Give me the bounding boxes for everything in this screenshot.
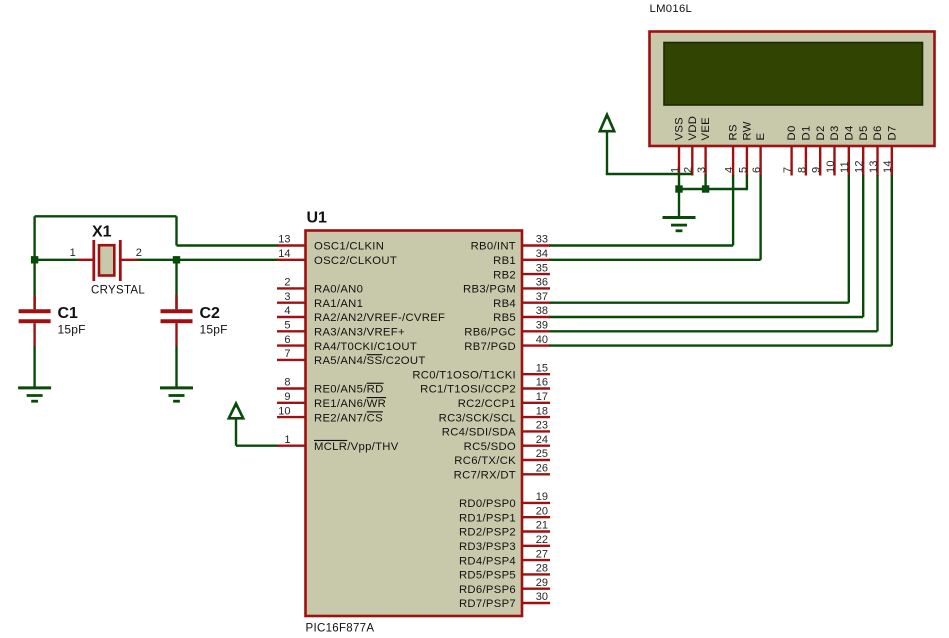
U1 pin 22 (RD3/PSP3) stub, number and label: [459, 534, 550, 553]
svg-text:VDD: VDD: [687, 116, 699, 141]
svg-text:RS: RS: [728, 124, 740, 140]
svg-text:2: 2: [683, 167, 695, 173]
U1 pin 29 (RD6/PSP6) stub, number and label: [459, 577, 550, 596]
power arrow VDD: [600, 113, 614, 132]
LCD pin 10 (D3) stub, name and number: [825, 125, 841, 175]
capacitor C1 (15pF) with leads: [19, 260, 51, 388]
LCD pin 8 (D1) stub, name and number: [796, 125, 812, 175]
junction dot node A (OSC1/C1/crystal): [31, 256, 38, 263]
U1 pin 37 (RB4) stub, number and label: [493, 291, 550, 310]
svg-text:13: 13: [868, 160, 880, 173]
svg-text:15pF: 15pF: [200, 323, 228, 337]
wire MCLR power stem: [235, 418, 237, 445]
svg-text:5: 5: [284, 320, 290, 332]
svg-text:35: 35: [536, 262, 548, 274]
wire LCD pin1 VSS down to ground node: [678, 174, 680, 189]
U1 pin 7 (RA5/AN4/SS/C2OUT) stub, number and label: [277, 348, 426, 367]
svg-text:RD2/PSP2: RD2/PSP2: [459, 527, 516, 539]
wire RB5 to LCD D5 (net D5): [549, 175, 863, 317]
wire VDD rail to LCD pin 2: [606, 173, 693, 175]
svg-text:37: 37: [536, 291, 548, 303]
svg-text:RB4: RB4: [493, 298, 516, 310]
svg-text:40: 40: [536, 334, 548, 346]
svg-text:D3: D3: [829, 125, 841, 140]
wire LCD pin5 RW down to ground rail: [746, 175, 748, 190]
wire RB4 to LCD D4 (net D4): [549, 175, 849, 303]
svg-text:E: E: [755, 133, 767, 141]
junction dot at LCD pin3 ground node: [702, 185, 709, 192]
LCD pin 2 (VDD) stub, name and number: [683, 116, 699, 176]
svg-text:U1: U1: [307, 210, 328, 227]
U1 pin 35 (RB2) stub, number and label: [493, 262, 550, 281]
svg-text:X1: X1: [92, 224, 112, 241]
U1 pin 34 (RB1) stub, number and label: [493, 248, 550, 267]
U1 pin 17 (RC2/CCP1) stub, number and label: [458, 391, 550, 410]
svg-text:RD6/PSP6: RD6/PSP6: [459, 584, 516, 596]
LCD pin 5 (RW) stub, name and number: [737, 121, 753, 175]
LCD pin 14 (D7) stub, name and number: [882, 125, 898, 175]
svg-text:RC0/T1OSO/T1CKI: RC0/T1OSO/T1CKI: [412, 369, 516, 381]
svg-text:RD3/PSP3: RD3/PSP3: [459, 541, 516, 553]
wire OSC1 left drop to crystal node A: [33, 216, 35, 259]
svg-text:10: 10: [278, 405, 290, 417]
wire MCLR power to U1 pin1: [236, 445, 278, 447]
svg-text:LM016L: LM016L: [650, 3, 693, 15]
LCD pin 1 (VSS) stub, name and number: [669, 117, 685, 176]
svg-text:15: 15: [536, 362, 548, 374]
svg-text:26: 26: [536, 463, 548, 475]
svg-text:5: 5: [737, 167, 749, 173]
svg-text:30: 30: [536, 591, 548, 603]
U1 pin 3 (RA1/AN1) stub, number and label: [277, 291, 363, 310]
svg-text:D1: D1: [801, 125, 813, 140]
svg-text:14: 14: [882, 160, 894, 173]
U1 pin 30 (RD7/PSP7) stub, number and label: [459, 591, 550, 610]
svg-text:RD7/PSP7: RD7/PSP7: [459, 598, 516, 610]
junction dot node B (OSC2/C2/crystal): [173, 256, 180, 263]
svg-text:4: 4: [724, 167, 736, 173]
svg-text:3: 3: [696, 167, 708, 173]
svg-text:C2: C2: [200, 305, 221, 322]
U1 pin 18 (RC3/SCK/SCL) stub, number and label: [439, 405, 550, 424]
U1 pin 13 (OSC1/CLKIN) stub, number and label: [277, 234, 384, 253]
svg-text:20: 20: [536, 505, 548, 517]
svg-text:6: 6: [284, 334, 290, 346]
svg-text:33: 33: [536, 234, 548, 246]
U1 pin 4 (RA2/AN2/VREF-/CVREF) stub, number and label: [277, 305, 445, 324]
wire ground rail under LCD: [679, 188, 747, 190]
svg-text:10: 10: [825, 160, 837, 173]
svg-text:36: 36: [536, 277, 548, 289]
ground symbol below LCD: [663, 218, 696, 231]
U1 pin 27 (RD4/PSP4) stub, number and label: [459, 548, 550, 567]
svg-text:2: 2: [284, 277, 290, 289]
U1 pin 16 (RC1/T1OSI/CCP2) stub, number and label: [420, 377, 550, 396]
svg-text:RE2/AN7/CS: RE2/AN7/CS: [314, 412, 383, 424]
power arrow at MCLR: [229, 402, 243, 419]
wire power stem to VDD rail: [606, 131, 608, 174]
U1 pin 15 (RC0/T1OSO/T1CKI) stub, number and label: [412, 362, 550, 381]
svg-text:RB5: RB5: [493, 312, 516, 324]
wire ground stem below LCD: [678, 189, 680, 218]
svg-text:19: 19: [536, 491, 548, 503]
svg-text:D0: D0: [786, 125, 798, 140]
U1 pin 2 (RA0/AN0) stub, number and label: [277, 277, 363, 296]
U1 pin 21 (RD2/PSP2) stub, number and label: [459, 520, 550, 539]
U1 pin 1 (MCLR/Vpp/THV) stub, number and label: [277, 434, 399, 453]
svg-text:RA1/AN1: RA1/AN1: [314, 298, 363, 310]
svg-text:24: 24: [536, 434, 548, 446]
svg-text:RC6/TX/CK: RC6/TX/CK: [454, 455, 516, 467]
LCD pin 12 (D5) stub, name and number: [854, 125, 870, 175]
LCD screen area: [664, 43, 923, 106]
LCD pin 4 (RS) stub, name and number: [724, 124, 740, 175]
svg-text:RA5/AN4/SS/C2OUT: RA5/AN4/SS/C2OUT: [314, 355, 426, 367]
wire OSC1 right drop: [175, 216, 177, 245]
svg-text:RW: RW: [742, 121, 754, 140]
svg-text:RA3/AN3/VREF+: RA3/AN3/VREF+: [314, 327, 405, 339]
crystal X1: [78, 240, 138, 281]
svg-text:RB2: RB2: [493, 269, 516, 281]
U1 pin 10 (RE2/AN7/CS) stub, number and label: [277, 405, 383, 424]
svg-text:29: 29: [536, 577, 548, 589]
U1 pin 24 (RC5/SDO) stub, number and label: [464, 434, 550, 453]
svg-text:28: 28: [536, 563, 548, 575]
junction dot at LCD pin1 ground node: [675, 185, 682, 192]
svg-text:8: 8: [796, 167, 808, 173]
svg-text:OSC1/CLKIN: OSC1/CLKIN: [314, 241, 384, 253]
wire LCD pin3 VEE down to ground rail: [704, 175, 706, 189]
svg-text:RB7/PGD: RB7/PGD: [464, 341, 516, 353]
svg-text:C1: C1: [58, 305, 79, 322]
U1 pin 19 (RD0/PSP0) stub, number and label: [459, 491, 550, 510]
svg-text:1: 1: [669, 167, 681, 173]
U1 pin 6 (RA4/T0CKI/C1OUT) stub, number and label: [277, 334, 417, 353]
svg-text:MCLR/Vpp/THV: MCLR/Vpp/THV: [314, 441, 399, 453]
svg-text:21: 21: [536, 520, 548, 532]
svg-text:RC4/SDI/SDA: RC4/SDI/SDA: [442, 427, 516, 439]
svg-text:D4: D4: [843, 125, 855, 140]
svg-text:16: 16: [536, 377, 548, 389]
U1 pin 20 (RD1/PSP1) stub, number and label: [459, 505, 550, 524]
svg-text:RD4/PSP4: RD4/PSP4: [459, 555, 516, 567]
svg-text:RD0/PSP0: RD0/PSP0: [459, 498, 516, 510]
svg-text:1: 1: [284, 434, 290, 446]
svg-text:PIC16F877A: PIC16F877A: [306, 623, 375, 635]
wire RB7/PGD to LCD D7 (net D7): [549, 175, 892, 346]
wire RB1 to LCD E (net E): [549, 175, 761, 260]
svg-text:22: 22: [536, 534, 548, 546]
svg-text:6: 6: [751, 167, 763, 173]
svg-text:RC1/T1OSI/CCP2: RC1/T1OSI/CCP2: [420, 384, 516, 396]
U1 pin 39 (RB6/PGC) stub, number and label: [464, 320, 550, 339]
svg-text:RD1/PSP1: RD1/PSP1: [459, 512, 516, 524]
svg-text:11: 11: [839, 161, 851, 173]
svg-text:25: 25: [536, 448, 548, 460]
svg-text:7: 7: [284, 348, 290, 360]
svg-text:RC5/SDO: RC5/SDO: [464, 441, 516, 453]
svg-text:RE0/AN5/RD: RE0/AN5/RD: [314, 384, 384, 396]
svg-text:3: 3: [284, 291, 290, 303]
svg-text:12: 12: [854, 160, 866, 173]
wire node A to crystal pin1: [35, 259, 78, 261]
U1 pin 38 (RB5) stub, number and label: [493, 305, 550, 324]
svg-text:4: 4: [284, 305, 290, 317]
U1 pin 9 (RE1/AN6/WR) stub, number and label: [277, 391, 386, 410]
svg-text:CRYSTAL: CRYSTAL: [91, 285, 145, 297]
U1 pin 5 (RA3/AN3/VREF+) stub, number and label: [277, 320, 405, 339]
LCD display U2 LM016L body: [650, 32, 935, 147]
svg-text:D2: D2: [815, 125, 827, 140]
LCD pin 6 (E) stub, name and number: [751, 133, 767, 176]
U1 pin 25 (RC6/TX/CK) stub, number and label: [454, 448, 550, 467]
svg-text:2: 2: [136, 247, 142, 259]
wire OSC1 drop to U1 pin13: [177, 244, 279, 246]
U1 pin 8 (RE0/AN5/RD) stub, number and label: [277, 377, 384, 396]
svg-text:RB1: RB1: [493, 255, 516, 267]
LCD pin 9 (D2) stub, name and number: [811, 125, 827, 175]
svg-text:23: 23: [536, 420, 548, 432]
svg-text:34: 34: [536, 248, 548, 260]
svg-text:RE1/AN6/WR: RE1/AN6/WR: [314, 398, 386, 410]
svg-text:RA0/AN0: RA0/AN0: [314, 284, 363, 296]
LCD pin 7 (D0) stub, name and number: [782, 125, 798, 175]
svg-text:D5: D5: [858, 125, 870, 140]
svg-text:VEE: VEE: [700, 117, 712, 141]
svg-text:1: 1: [70, 247, 76, 259]
LCD pin 3 (VEE) stub, name and number: [696, 117, 712, 176]
svg-text:RC2/CCP1: RC2/CCP1: [458, 398, 516, 410]
svg-text:RA2/AN2/VREF-/CVREF: RA2/AN2/VREF-/CVREF: [314, 312, 445, 324]
svg-text:VSS: VSS: [674, 117, 686, 141]
svg-text:RB0/INT: RB0/INT: [471, 241, 516, 253]
U1 pin 33 (RB0/INT) stub, number and label: [471, 234, 550, 253]
U1 pin 14 (OSC2/CLKOUT) stub, number and label: [277, 248, 397, 267]
U1 pin 23 (RC4/SDI/SDA) stub, number and label: [442, 420, 550, 439]
wire crystal pin2 to node B and U1 pin14: [137, 259, 279, 261]
svg-text:7: 7: [782, 167, 794, 173]
svg-text:9: 9: [811, 167, 823, 173]
svg-text:9: 9: [284, 391, 290, 403]
wire RB6/PGC to LCD D6 (net D6): [549, 175, 878, 331]
svg-text:18: 18: [536, 405, 548, 417]
U1 pin 26 (RC7/RX/DT) stub, number and label: [454, 463, 550, 482]
U1 pin 36 (RB3/PGM) stub, number and label: [463, 277, 550, 296]
U1 pin 40 (RB7/PGD) stub, number and label: [464, 334, 550, 353]
LCD pin 11 (D4) stub, name and number: [839, 125, 855, 175]
LCD pin 13 (D6) stub, name and number: [868, 125, 884, 175]
svg-text:RB3/PGM: RB3/PGM: [463, 284, 516, 296]
svg-text:38: 38: [536, 305, 548, 317]
svg-text:39: 39: [536, 320, 548, 332]
capacitor C2 (15pF) with leads: [161, 260, 193, 388]
svg-text:RC7/RX/DT: RC7/RX/DT: [454, 470, 516, 482]
ground symbol below C2: [160, 388, 193, 401]
svg-text:RC3/SCK/SCL: RC3/SCK/SCL: [439, 412, 516, 424]
svg-text:RA4/T0CKI/C1OUT: RA4/T0CKI/C1OUT: [314, 341, 417, 353]
svg-text:RD5/PSP5: RD5/PSP5: [459, 570, 516, 582]
svg-text:RB6/PGC: RB6/PGC: [464, 327, 516, 339]
svg-text:27: 27: [536, 548, 548, 560]
microcontroller U1 body: [306, 231, 523, 617]
svg-text:D6: D6: [872, 125, 884, 140]
svg-text:13: 13: [278, 234, 290, 246]
ground symbol below C1: [18, 388, 51, 401]
svg-text:8: 8: [284, 377, 290, 389]
wire RB0/INT to LCD RS (net RS): [549, 175, 733, 246]
U1 pin 28 (RD5/PSP5) stub, number and label: [459, 563, 550, 582]
wire OSC1 top run: [35, 215, 177, 217]
svg-text:D7: D7: [886, 125, 898, 140]
svg-text:OSC2/CLKOUT: OSC2/CLKOUT: [314, 255, 397, 267]
svg-text:17: 17: [536, 391, 548, 403]
svg-text:14: 14: [278, 248, 290, 260]
svg-text:15pF: 15pF: [58, 323, 86, 337]
